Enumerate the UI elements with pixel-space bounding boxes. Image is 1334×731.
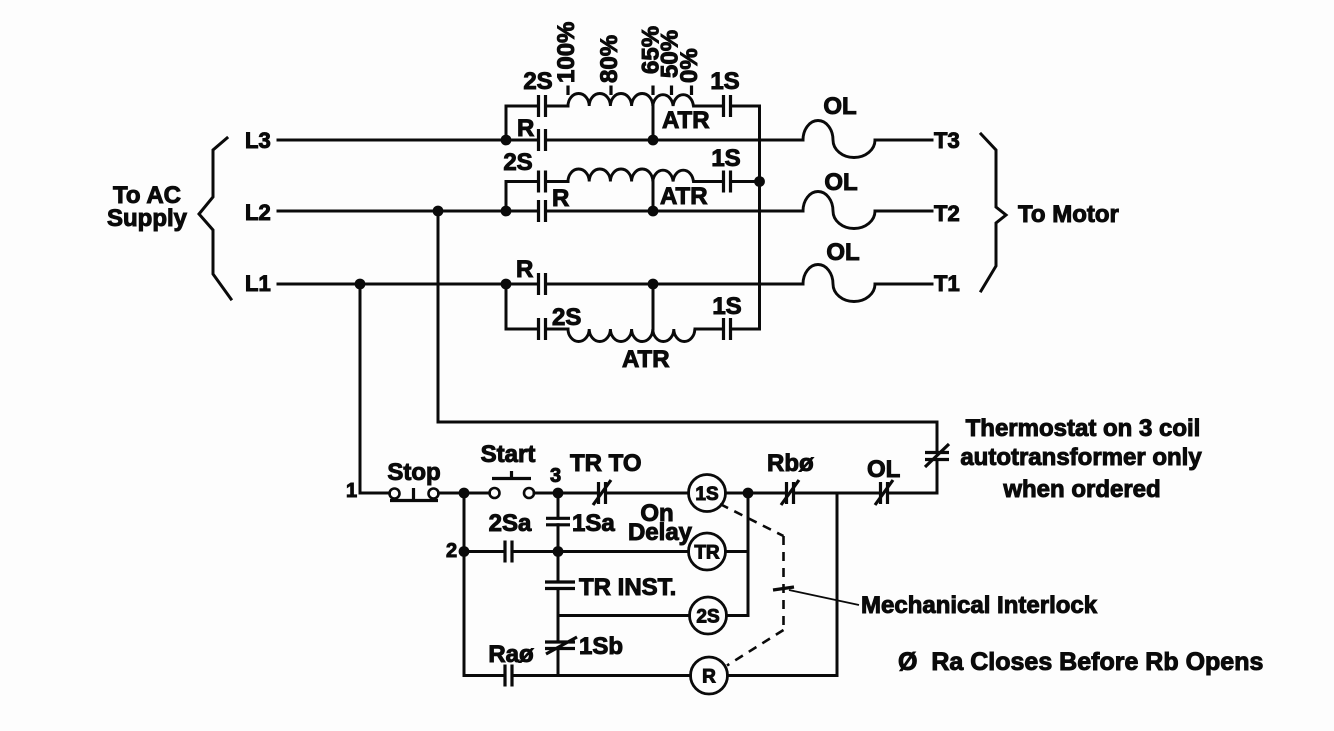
wire L1 main: [278, 283, 803, 286]
contact Rb (NC): [767, 450, 814, 505]
svg-text:R: R: [517, 115, 534, 142]
contact OL (NC): [867, 456, 900, 505]
autotransformer coil ATR (L3): [568, 93, 693, 106]
overload heater OL (T3): [803, 93, 875, 158]
contact 1S (L3 branch): [710, 68, 739, 117]
brace To Motor: [981, 134, 1006, 291]
junction L3-branch left: [501, 135, 512, 146]
contact R (L2 pole): [539, 185, 570, 222]
svg-text:when ordered: when ordered: [1002, 476, 1160, 503]
svg-text:1Sa: 1Sa: [572, 510, 615, 537]
contact 1Sa (NO): [546, 510, 615, 537]
brace AC supply: [199, 138, 231, 299]
tap wire down (L3): [652, 106, 655, 140]
junction rung1 after Stop: [459, 488, 470, 499]
svg-text:2: 2: [446, 540, 457, 562]
contact 2S (L2 branch): [503, 149, 545, 193]
svg-text:R: R: [552, 185, 569, 212]
overload heater OL (T1): [803, 239, 875, 302]
contact 1S (L2 branch): [711, 145, 740, 193]
junction L1 control tap: [355, 279, 366, 290]
autotransformer coil ATR (L2): [568, 169, 693, 182]
svg-text:1: 1: [346, 480, 357, 502]
pushbutton Start (NO): [481, 441, 536, 498]
svg-text:OL: OL: [826, 239, 859, 266]
autotransformer coil ATR (L1): [568, 329, 695, 342]
svg-text:Ø Ra Closes Before Rb Opens: Ø Ra Closes Before Rb Opens: [898, 648, 1263, 676]
tap ticks (L3 coil): [568, 86, 692, 96]
svg-text:R: R: [702, 667, 716, 688]
junction rung2 left: [459, 546, 470, 557]
svg-text:3: 3: [550, 465, 561, 487]
wire to T1: [875, 283, 932, 286]
svg-text:Supply: Supply: [107, 205, 188, 232]
contact 2S (L3 branch): [523, 68, 552, 117]
svg-text:Thermostat on 3 coil: Thermostat on 3 coil: [966, 415, 1201, 442]
svg-text:1S: 1S: [710, 68, 739, 95]
coil 1S: [689, 475, 726, 512]
thermostat contact: [925, 444, 949, 467]
wire L2 branch: [506, 182, 760, 212]
wire rung 4: [464, 674, 837, 677]
junction star point L2: [754, 176, 765, 187]
wire star vertical: [758, 106, 761, 329]
svg-text:Rbø: Rbø: [767, 450, 814, 477]
wire to T2: [875, 210, 932, 213]
svg-text:1S: 1S: [712, 293, 741, 320]
junction L2 control tap: [433, 206, 444, 217]
contact TR INST (NO): [545, 574, 676, 601]
svg-text:100%: 100%: [553, 22, 580, 83]
svg-text:Stop: Stop: [387, 459, 440, 486]
wire vertical from junction after stop: [463, 493, 466, 676]
wire L3 branch: [506, 106, 760, 140]
junction rung1 after 1S coil: [743, 488, 754, 499]
svg-text:2Sa: 2Sa: [489, 510, 532, 537]
contact 2Sa (NO): [489, 510, 532, 563]
wire R rung up to rung1: [836, 493, 839, 676]
junction rung2 node: [553, 546, 564, 557]
svg-text:T3: T3: [934, 128, 960, 153]
svg-text:T2: T2: [934, 201, 960, 226]
wire L3 main: [278, 139, 803, 142]
svg-text:2S: 2S: [696, 607, 719, 628]
label To AC Supply: [107, 182, 188, 232]
svg-text:ATR: ATR: [662, 107, 710, 134]
wire L2 down and across top of control: [438, 211, 937, 422]
contact R (L1 pole): [516, 256, 546, 295]
wire right control vertical: [936, 422, 939, 493]
wire coil bus vertical: [747, 493, 750, 616]
junction L2-branch left: [501, 206, 512, 217]
junction rung1 node 3: [553, 488, 564, 499]
svg-text:L2: L2: [245, 200, 271, 225]
svg-text:OL: OL: [867, 456, 900, 483]
contact 2S (L1 branch): [539, 304, 582, 340]
svg-text:2S: 2S: [523, 68, 552, 95]
pushbutton Stop (NC): [387, 459, 440, 501]
coil TR: [689, 533, 726, 570]
dashed mechanical interlock link: [720, 504, 784, 666]
wire vertical node3 down with contacts: [557, 493, 560, 676]
wire to T3: [875, 139, 932, 142]
label On Delay: [628, 500, 693, 546]
svg-text:ATR: ATR: [660, 183, 708, 210]
svg-text:2S: 2S: [552, 304, 581, 331]
contact 1S (L1 branch): [712, 293, 741, 340]
label Thermostat note: [960, 415, 1202, 503]
svg-text:TR INST.: TR INST.: [579, 574, 676, 601]
svg-text:TR: TR: [694, 543, 720, 564]
wire L2 main: [278, 210, 803, 213]
contact R (L3 pole): [517, 115, 546, 151]
svg-text:1S: 1S: [711, 145, 740, 172]
svg-text:Mechanical Interlock: Mechanical Interlock: [861, 592, 1098, 619]
overload heater OL (T2): [803, 169, 875, 229]
svg-text:autotransformer only: autotransformer only: [960, 444, 1202, 471]
wire L1 down to rung 1: [359, 284, 362, 493]
wire rung 3: [558, 614, 748, 617]
coil 2S: [690, 597, 727, 634]
svg-text:To Motor: To Motor: [1018, 201, 1119, 228]
wire L1 branch: [506, 284, 760, 329]
tap wire down (L2): [652, 182, 655, 212]
interlock pointer line: [789, 590, 859, 605]
wire rung 1: [360, 492, 937, 495]
svg-text:Start: Start: [481, 441, 536, 468]
junction L1 tap: [648, 279, 659, 290]
contact 1Sb (NC): [545, 633, 623, 660]
junction L1-branch left: [501, 279, 512, 290]
svg-text:2S: 2S: [503, 149, 532, 176]
svg-text:80%: 80%: [596, 35, 623, 83]
svg-text:Delay: Delay: [628, 519, 693, 546]
svg-text:1S: 1S: [695, 484, 718, 505]
coil R: [691, 657, 728, 694]
svg-text:L1: L1: [245, 271, 271, 296]
svg-text:TR TO: TR TO: [570, 450, 642, 477]
junction L3 tap: [648, 135, 659, 146]
junction L2 tap: [648, 206, 659, 217]
svg-text:0%: 0%: [676, 48, 703, 83]
svg-text:L3: L3: [245, 128, 271, 153]
svg-text:R: R: [516, 256, 533, 283]
tap wire up (L1): [652, 284, 655, 329]
svg-text:Raø: Raø: [488, 641, 534, 668]
contact Ra (NO): [488, 641, 534, 687]
svg-text:OL: OL: [824, 169, 857, 196]
wire rung 2: [464, 550, 748, 553]
svg-text:OL: OL: [823, 93, 856, 120]
svg-text:1Sb: 1Sb: [579, 633, 623, 660]
interlock tick: [773, 587, 794, 590]
svg-text:T1: T1: [934, 271, 960, 296]
contact TR TO (NC timed): [570, 450, 642, 505]
svg-text:ATR: ATR: [622, 346, 670, 373]
